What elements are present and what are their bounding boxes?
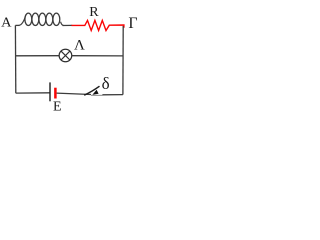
inductor loop 2 — [32, 13, 39, 25]
lamp Lambda circle — [59, 49, 72, 62]
inductor loop 5 — [53, 13, 60, 25]
lamp X stroke 2 — [61, 51, 70, 60]
lamp X stroke 1 — [61, 51, 70, 60]
battery long plate — [49, 82, 51, 101]
wire battery to switch — [57, 93, 91, 94]
inductor L coil entry — [19, 15, 26, 26]
wire left vertical — [14, 25, 16, 93]
svg-text:E: E — [53, 99, 62, 114]
wire top-left segment — [15, 24, 19, 26]
wire bottom left segment — [16, 92, 50, 94]
switch lever — [84, 86, 99, 95]
wire switch faint contact segment — [91, 94, 103, 96]
wire coil to resistor — [63, 24, 73, 26]
svg-text:δ: δ — [102, 74, 110, 93]
inductor loop 3 — [39, 13, 46, 25]
svg-text:Λ: Λ — [74, 38, 85, 54]
inductor loop 4 — [46, 13, 53, 25]
inductor loop 1 — [25, 13, 32, 25]
wire right vertical — [122, 26, 124, 95]
resistor R red zigzag — [72, 20, 124, 30]
svg-text:A: A — [1, 16, 12, 31]
svg-text:Γ: Γ — [128, 15, 137, 32]
battery short red plate — [54, 88, 57, 99]
wire switch to right corner — [102, 94, 123, 96]
inductor L coil exit — [61, 22, 64, 26]
switch arrowhead — [92, 90, 98, 95]
wire middle left segment — [16, 55, 60, 57]
wire middle right segment — [72, 55, 123, 57]
svg-text:R: R — [89, 5, 99, 20]
